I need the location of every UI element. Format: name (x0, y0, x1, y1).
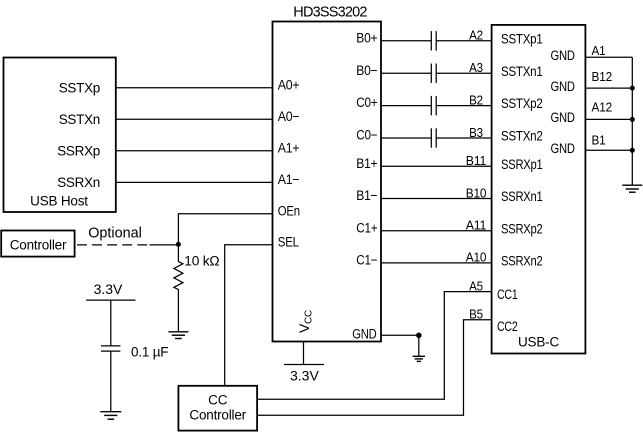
svg-text:GND: GND (551, 141, 576, 156)
svg-text:GND: GND (551, 48, 576, 63)
svg-text:B1−: B1− (356, 188, 377, 203)
wire GND B12 (585, 87, 632, 89)
capacitor C1 (431, 31, 436, 50)
resistor R1 10 kOhm (174, 244, 183, 331)
svg-text:Controller: Controller (189, 408, 246, 423)
svg-text:SSRXn1: SSRXn1 (501, 189, 543, 204)
svg-text:3.3V: 3.3V (94, 281, 123, 297)
wire C0+ right (436, 105, 491, 107)
node junction B12 (630, 86, 635, 91)
svg-text:SSRXp1: SSRXp1 (501, 157, 543, 172)
svg-text:A11: A11 (466, 218, 487, 233)
power 3.3V Vcc bar (284, 364, 324, 366)
svg-text:SSRXn: SSRXn (57, 175, 100, 190)
wire SSRXn to A1- (116, 181, 273, 183)
wire Controller to junction (dashed, Optional) (77, 244, 147, 246)
wire GND A1 (585, 56, 632, 58)
ground resistor (168, 332, 188, 339)
wire C0+ left (381, 105, 431, 107)
svg-text:B11: B11 (466, 153, 487, 168)
wire GND A12 (585, 118, 632, 120)
svg-text:SEL: SEL (278, 235, 300, 250)
svg-text:C1+: C1+ (356, 220, 377, 235)
wire C1+ (381, 230, 492, 232)
ground U1 (413, 356, 425, 361)
capacitor C3 (431, 96, 436, 115)
svg-text:GND: GND (551, 79, 576, 94)
wire C0- left (381, 137, 431, 139)
svg-text:C1−: C1− (356, 253, 377, 268)
svg-text:B12: B12 (592, 69, 613, 84)
IC U1 HD3SS3202 box (273, 22, 382, 342)
Controller box (1, 231, 74, 257)
wire B1- (381, 198, 492, 200)
svg-text:B2: B2 (469, 92, 483, 107)
wire CC2 / B5 (257, 320, 492, 416)
svg-text:A10: A10 (466, 250, 487, 265)
node junction OEn/resistor (176, 242, 181, 247)
wire GND B1 (585, 149, 632, 151)
wire C0- right (436, 137, 491, 139)
svg-text:C0+: C0+ (356, 95, 377, 110)
svg-text:OEn: OEn (278, 204, 300, 219)
svg-text:SSRXp: SSRXp (57, 144, 100, 159)
svg-text:SSRXp2: SSRXp2 (501, 221, 543, 236)
svg-text:A1: A1 (592, 43, 606, 58)
svg-text:SSTXp2: SSTXp2 (501, 96, 543, 111)
wire 3.3V to cap (110, 300, 112, 346)
svg-text:SSTXp: SSTXp (59, 81, 100, 96)
svg-text:A3: A3 (469, 60, 483, 75)
svg-text:B1+: B1+ (356, 156, 377, 171)
wire B0- left (381, 72, 431, 74)
svg-text:10 kΩ: 10 kΩ (184, 254, 219, 269)
svg-text:B3: B3 (469, 125, 483, 140)
svg-text:SSRXn2: SSRXn2 (501, 254, 543, 269)
svg-text:A1−: A1− (278, 172, 300, 187)
USB-C box (492, 25, 586, 354)
wire B0- right (436, 72, 491, 74)
svg-text:A0−: A0− (278, 109, 300, 124)
wire C1- (381, 262, 492, 264)
svg-text:SSTXn2: SSTXn2 (501, 129, 543, 144)
wire SSRXp to A1+ (116, 150, 273, 152)
svg-text:CC1: CC1 (497, 287, 518, 302)
wire Vcc stub (303, 342, 305, 365)
svg-text:B1: B1 (592, 133, 606, 148)
CC Controller box (178, 386, 257, 431)
svg-text:SSTXn: SSTXn (59, 112, 100, 127)
svg-text:GND: GND (352, 326, 377, 341)
svg-text:A12: A12 (592, 99, 613, 114)
svg-text:A1+: A1+ (278, 141, 300, 156)
wire B1+ (381, 165, 492, 167)
wire OEn (178, 214, 272, 245)
svg-text:B0−: B0− (356, 63, 377, 78)
node junction A12 (630, 117, 635, 122)
svg-text:SSTXp1: SSTXp1 (501, 31, 543, 46)
svg-text:A0+: A0+ (278, 78, 300, 93)
capacitor 0.1 uF (101, 346, 120, 351)
wire GND down (418, 335, 420, 356)
capacitor C4 (431, 128, 436, 147)
svg-text:GND: GND (551, 110, 576, 125)
svg-text:SSTXn1: SSTXn1 (501, 64, 543, 79)
svg-text:HD3SS3202: HD3SS3202 (293, 5, 367, 21)
svg-text:USB Host: USB Host (30, 194, 88, 209)
svg-text:0.1 µF: 0.1 µF (131, 345, 168, 360)
ground cap (100, 412, 121, 420)
ground USB-C (622, 185, 642, 192)
wire SSTXn to A0- (116, 118, 273, 120)
wire cap to ground (110, 351, 112, 412)
svg-text:C0−: C0− (356, 128, 377, 143)
capacitor C2 (431, 64, 436, 83)
svg-text:B0+: B0+ (356, 30, 377, 45)
wire U1 GND pin (381, 334, 419, 336)
svg-text:CC2: CC2 (497, 319, 518, 334)
USB Host box (4, 58, 116, 213)
wire GND bus vertical (631, 57, 633, 185)
node junction B1 (630, 148, 635, 153)
wire B0+ left (381, 40, 431, 42)
svg-text:A2: A2 (469, 28, 483, 43)
wire SSTXp to A0+ (116, 87, 273, 89)
svg-text:USB-C: USB-C (518, 335, 559, 350)
svg-text:Optional: Optional (88, 226, 142, 242)
svg-text:3.3V: 3.3V (290, 368, 319, 384)
wire CC1 / A5 (257, 292, 492, 400)
node junction GND (416, 333, 422, 339)
wire B0+ right (436, 40, 491, 42)
svg-text:Controller: Controller (10, 238, 67, 253)
svg-text:CC: CC (208, 393, 228, 408)
svg-text:B10: B10 (466, 185, 487, 200)
wire SEL (225, 245, 273, 386)
